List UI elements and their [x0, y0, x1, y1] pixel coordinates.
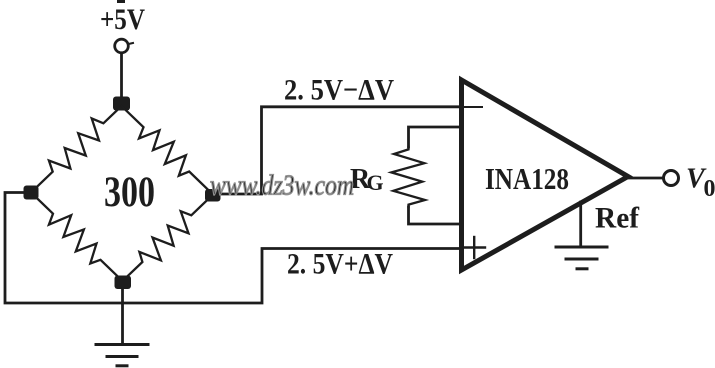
op-amp U1 INA128 (triangle): [462, 80, 629, 270]
pin plus (noninverting input mark): [464, 237, 486, 258]
label V0: [686, 164, 715, 203]
resistor bridge arm top-right: [122, 106, 214, 195]
wire RG top bracket: [409, 127, 462, 147]
svg-text:INA128: INA128: [485, 161, 569, 196]
node bottom (junction dot): [115, 276, 132, 290]
wire RG bottom bracket: [409, 207, 462, 224]
ground (Ref): [556, 247, 607, 269]
wire output: [628, 177, 662, 180]
label RG: [350, 164, 384, 195]
wire +5V to bridge top node: [120, 53, 123, 98]
wire Ref pin to ground: [579, 202, 582, 247]
pin minus (inverting input mark): [464, 106, 482, 108]
svg-text:300: 300: [104, 169, 155, 216]
wire left node around bottom to noninverting input: [5, 193, 459, 304]
resistor bridge arm top-left: [31, 106, 122, 193]
stray mark top edge: [117, 0, 125, 3]
ground (bridge bottom): [96, 345, 148, 366]
node right (junction dot): [205, 189, 221, 202]
svg-text:2. 5V−ΔV: 2. 5V−ΔV: [284, 74, 394, 107]
svg-text:Ref: Ref: [595, 202, 640, 235]
svg-text:0: 0: [704, 176, 715, 202]
resistor RG: [391, 147, 425, 207]
wire bottom node to ground: [121, 288, 124, 344]
terminal V0 (open circle): [664, 171, 679, 186]
resistor bridge arm right-bottom: [123, 195, 214, 282]
resistor bridge arm left-bottom: [31, 193, 123, 282]
terminal +5V (open circle): [115, 39, 129, 53]
node top (junction dot): [113, 97, 130, 111]
wire right node up to inverting input: [220, 107, 459, 194]
svg-text:www.dz3w.com: www.dz3w.com: [210, 171, 354, 202]
node left (junction dot): [24, 186, 39, 200]
svg-text:G: G: [367, 170, 384, 195]
svg-text:2. 5V+ΔV: 2. 5V+ΔV: [287, 248, 393, 281]
svg-text:+5V: +5V: [100, 3, 145, 36]
